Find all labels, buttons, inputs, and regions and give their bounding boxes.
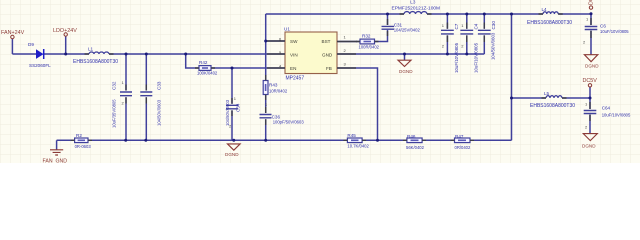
- svg-text:C33: C33: [157, 81, 162, 90]
- svg-text:LDO+24V: LDO+24V: [53, 28, 77, 34]
- svg-text:10uF/10V/0805: 10uF/10V/0805: [474, 42, 479, 73]
- svg-text:FAN+24V: FAN+24V: [1, 30, 25, 36]
- svg-text:DC5V: DC5V: [583, 78, 598, 84]
- svg-text:10R/0402: 10R/0402: [269, 88, 288, 93]
- svg-text:56K/0402: 56K/0402: [406, 145, 425, 150]
- svg-text:0R-0603: 0R-0603: [75, 144, 92, 149]
- svg-text:104/50V/0603: 104/50V/0603: [157, 99, 162, 126]
- svg-text:DGND: DGND: [582, 144, 596, 149]
- svg-text:DGND: DGND: [585, 64, 599, 69]
- svg-text:L4: L4: [542, 7, 548, 12]
- svg-text:R42: R42: [199, 60, 208, 65]
- svg-text:C64: C64: [602, 106, 611, 111]
- svg-text:DGND: DGND: [225, 152, 239, 157]
- svg-text:EN: EN: [290, 66, 296, 71]
- svg-text:C30: C30: [491, 21, 496, 30]
- svg-text:SS2060FL: SS2060FL: [29, 63, 51, 68]
- svg-text:100K/0402: 100K/0402: [197, 71, 218, 76]
- svg-text:EHBS1608A800T30: EHBS1608A800T30: [73, 59, 118, 65]
- svg-text:L3: L3: [410, 0, 416, 5]
- svg-text:R46: R46: [407, 134, 416, 139]
- svg-text:10uF/10V/0805: 10uF/10V/0805: [454, 42, 459, 73]
- svg-text:GND: GND: [322, 53, 333, 58]
- svg-text:C34: C34: [236, 103, 241, 112]
- svg-text:FB: FB: [326, 66, 332, 71]
- svg-text:C4: C4: [474, 23, 479, 29]
- svg-text:104/50V/0603: 104/50V/0603: [491, 32, 496, 60]
- svg-text:104/25V/0402: 104/25V/0402: [394, 27, 421, 32]
- svg-text:VIN: VIN: [290, 53, 298, 58]
- svg-text:EHBS1608A800T30: EHBS1608A800T30: [530, 103, 575, 109]
- svg-text:L5: L5: [544, 91, 550, 96]
- svg-text:U1: U1: [284, 27, 290, 32]
- svg-text:DGND: DGND: [399, 69, 413, 74]
- svg-text:R47: R47: [455, 134, 464, 139]
- svg-text:C36: C36: [272, 114, 281, 119]
- svg-text:DC5VD: DC5VD: [588, 0, 594, 5]
- svg-text:R32: R32: [362, 34, 371, 39]
- svg-text:C6: C6: [600, 23, 606, 28]
- svg-text:0R/0402: 0R/0402: [455, 145, 472, 150]
- svg-text:EPMF2520121Z-100M: EPMF2520121Z-100M: [392, 6, 441, 12]
- svg-text:EHBS1608A800T30: EHBS1608A800T30: [527, 20, 572, 26]
- svg-text:C7: C7: [454, 23, 459, 29]
- svg-text:R43: R43: [269, 83, 278, 88]
- svg-text:10uF/10V/0805: 10uF/10V/0805: [600, 29, 629, 34]
- svg-text:FAN_GND: FAN_GND: [43, 159, 68, 164]
- svg-text:10uF/10V/0805: 10uF/10V/0805: [602, 112, 631, 117]
- svg-text:R45: R45: [347, 133, 356, 138]
- svg-text:104/50V/0603: 104/50V/0603: [225, 99, 230, 126]
- svg-text:C32: C32: [112, 81, 117, 90]
- svg-text:R2: R2: [76, 133, 82, 138]
- svg-text:10.7K/0402: 10.7K/0402: [347, 143, 369, 148]
- svg-text:10uF/35V/0805: 10uF/35V/0805: [112, 99, 117, 128]
- svg-text:BST: BST: [322, 39, 331, 44]
- svg-text:100R/0402: 100R/0402: [359, 44, 380, 49]
- svg-text:100pF/50V/0603: 100pF/50V/0603: [273, 120, 305, 125]
- svg-text:SW: SW: [290, 39, 298, 44]
- svg-text:L1: L1: [88, 47, 94, 52]
- svg-text:MP2457: MP2457: [286, 76, 305, 82]
- svg-text:D9: D9: [28, 42, 34, 47]
